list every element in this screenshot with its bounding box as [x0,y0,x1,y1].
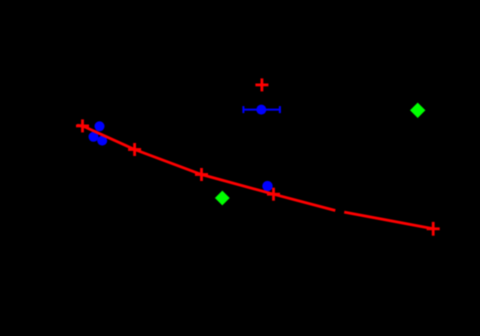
red plus marker P3 [195,168,208,181]
red plus marker P6 (isolated upper point) [255,78,268,91]
blue circle B2 [89,132,99,142]
blue circle B1 [95,121,105,131]
blue x-error bar of point B4 [243,106,280,113]
red plus marker P1 [76,119,89,132]
green diamond D2 [215,191,230,206]
red curve segment 2 [344,212,433,229]
red curve segment 1 [77,125,335,210]
red plus marker P5 [427,222,440,236]
blue circle B5 [262,181,272,191]
blue circle B3 [97,136,107,146]
red plus marker P2 [128,143,141,156]
red plus marker P4 [267,188,280,201]
blue circle B4 (with error bar) [256,105,266,115]
green diamond D1 [410,103,425,118]
